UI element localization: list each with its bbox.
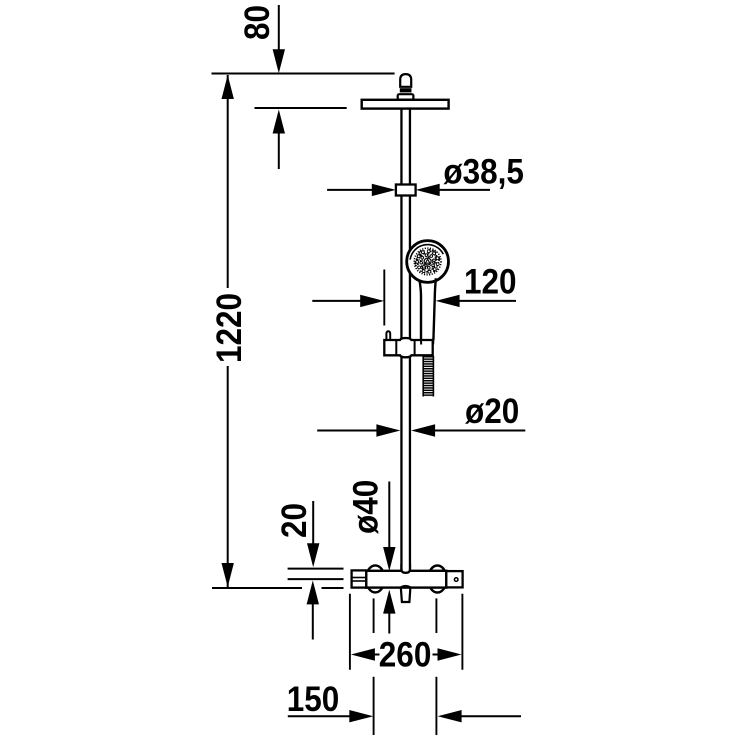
- dim line top (80 upper reference): [212, 73, 395, 75]
- dim line 80 lower reference: [255, 107, 347, 109]
- holder on rail: [384, 338, 433, 357]
- svg-text:ø38,5: ø38,5: [443, 153, 524, 192]
- shower riser pipe: [401, 109, 410, 571]
- svg-text:260: 260: [379, 636, 432, 675]
- svg-text:ø20: ø20: [465, 393, 519, 432]
- arrow oe40 up: [383, 590, 395, 634]
- 20 reference lines: [288, 569, 344, 580]
- arrow 80 up: [273, 110, 285, 170]
- dim oe38.5: [327, 184, 490, 196]
- arrow 80 down: [273, 5, 285, 73]
- arrow 20 down: [307, 501, 319, 567]
- right escutcheon ellipse: [428, 566, 447, 593]
- dim 150: [288, 710, 521, 722]
- arrow oe40 down: [383, 482, 395, 572]
- outlet spout: [401, 586, 411, 587]
- bottom reference line (1220): [212, 587, 344, 589]
- knob (diverter) on top: [398, 74, 414, 100]
- collar oe38.5: [396, 185, 416, 196]
- svg-text:1220: 1220: [211, 293, 250, 363]
- dim 120 extension line: [383, 270, 385, 326]
- dim 120: [312, 295, 516, 307]
- dim 260 extension lines: [350, 594, 463, 670]
- svg-text:150: 150: [287, 681, 340, 720]
- valve body: [366, 571, 446, 588]
- arrow 20 up: [307, 580, 319, 639]
- svg-text:20: 20: [276, 503, 315, 538]
- dim 260: [351, 648, 462, 660]
- hand shower head: [407, 241, 449, 283]
- svg-text:120: 120: [464, 263, 517, 302]
- holder knob: [386, 331, 390, 340]
- right handle: [446, 571, 462, 587]
- thermostat valve: [352, 564, 463, 602]
- dim oe20: [317, 424, 525, 436]
- left handle: [352, 570, 367, 587]
- dim 150 extension lines: [374, 598, 437, 735]
- shower head plate: [362, 100, 449, 109]
- svg-text:ø40: ø40: [347, 480, 386, 534]
- dimension 1220 vertical line: [222, 75, 234, 587]
- pipe socket junction: [401, 564, 410, 573]
- shower hose (hatched): [423, 356, 433, 397]
- svg-text:80: 80: [238, 5, 277, 40]
- hand shower handle: [419, 278, 436, 340]
- left escutcheon ellipse: [366, 565, 385, 592]
